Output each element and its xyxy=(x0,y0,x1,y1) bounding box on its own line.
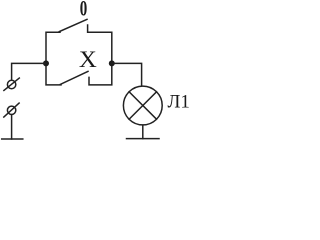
wire node A to terminal X1 xyxy=(12,63,46,80)
terminal X1 slash xyxy=(4,78,19,90)
terminal X2 slash xyxy=(4,103,19,117)
lamp L1 bottom stem wire xyxy=(142,125,144,138)
svg-text:Л1: Л1 xyxy=(168,92,190,113)
lamp L1 circle xyxy=(123,86,162,125)
switch S1 "0" right contact xyxy=(88,25,112,63)
lamp L1 cross xyxy=(129,92,156,119)
wire node B to lamp xyxy=(112,63,142,85)
switch S1 "0" left contact xyxy=(46,32,60,63)
label X (switch S2 name) xyxy=(79,48,97,73)
svg-text:X: X xyxy=(79,48,97,73)
lamp L1 bottom bar xyxy=(127,138,160,140)
switch S1 "0" blade xyxy=(59,19,87,31)
junction node B xyxy=(109,60,115,66)
terminal X1 (socket circle) xyxy=(7,80,15,88)
label L1 xyxy=(168,92,190,113)
switch S2 "X" left contact xyxy=(46,63,61,85)
switch S2 "X" blade xyxy=(60,71,88,84)
terminal X2 (socket circle) xyxy=(7,106,15,114)
junction node A xyxy=(43,60,49,66)
terminal X2 stem wire xyxy=(11,115,13,139)
svg-text:0: 0 xyxy=(80,0,87,21)
terminal X2 bar xyxy=(2,138,23,140)
label 0 (switch S1 name) xyxy=(80,0,87,21)
switch S2 "X" right contact xyxy=(89,63,112,85)
